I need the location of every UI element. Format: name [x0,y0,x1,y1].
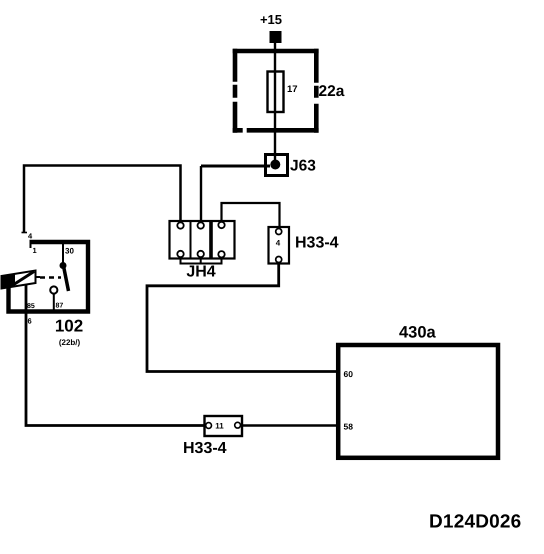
svg-text:D124D026: D124D026 [429,512,521,533]
svg-text:60: 60 [344,369,354,379]
svg-text:30: 30 [65,247,74,256]
svg-text:11: 11 [215,422,224,431]
svg-text:4: 4 [276,239,281,248]
svg-text:+15: +15 [260,12,282,27]
svg-text:H33-4: H33-4 [295,235,339,252]
svg-text:6: 6 [28,317,32,326]
svg-text:JH4: JH4 [186,264,215,281]
svg-text:17: 17 [287,84,298,95]
svg-text:22a: 22a [319,83,345,100]
svg-text:J63: J63 [290,158,316,175]
svg-text:102: 102 [55,317,83,336]
svg-text:(22b/): (22b/) [59,338,81,347]
svg-text:58: 58 [344,422,354,432]
svg-text:85: 85 [27,303,35,310]
svg-text:1: 1 [33,246,37,255]
svg-text:87: 87 [56,303,64,310]
svg-text:430a: 430a [399,324,437,342]
svg-text:H33-4: H33-4 [183,440,227,457]
